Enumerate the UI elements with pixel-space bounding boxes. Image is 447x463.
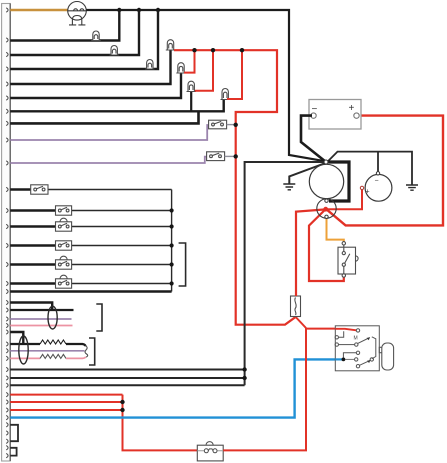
- lamp L1 (top of row-5 riser, feeds red bus): [166, 40, 175, 50]
- wire: blue ignition feed: [10, 359, 335, 417]
- flasher F1: [197, 442, 223, 461]
- grommet E1 (harness 1): [48, 306, 57, 329]
- breaker box C (with dome): [56, 218, 72, 231]
- ground symbol (body, right): [406, 185, 418, 190]
- fuse FU1: [291, 296, 301, 317]
- switch box B: [56, 206, 72, 215]
- wire: harness 1 purple lead: [10, 318, 71, 320]
- breaker box E (with dome): [56, 256, 72, 269]
- wire: red fuse to ignition Y: [296, 317, 306, 328]
- stub: S1 output to red bus: [227, 124, 236, 126]
- wire: alternator/body ground run: [327, 152, 412, 185]
- wire: red feed to ignition switch: [306, 329, 356, 331]
- junction dot blue/ignition: [342, 358, 346, 362]
- wire: row A to bus: [48, 189, 172, 191]
- wire: red drop to flasher: [123, 395, 198, 451]
- wire: harness 2 jog row: [10, 332, 23, 344]
- wire: row 7 with riser to lamp L3: [10, 100, 224, 112]
- bracket harness 1: [96, 304, 102, 331]
- wire: row C feed (thick): [10, 225, 55, 228]
- junction dot S1/red bus: [234, 123, 238, 127]
- breaker/switch box A: [31, 185, 48, 194]
- gauge G1 (instrument with internal filaments): [68, 2, 87, 25]
- wire: red feed bus from lamp L1 down right side to fuse area: [174, 50, 295, 325]
- wire: harness 2 pink lead with resistance wire: [10, 354, 85, 358]
- wire: black trunk to engine ground node: [245, 162, 325, 385]
- wire: battery negative cable: [301, 116, 325, 161]
- switch box D: [56, 241, 72, 250]
- junction dots on black trunk: [242, 367, 246, 371]
- connector pins (hook terminals on strip): [6, 8, 8, 458]
- wire: red branch lamp L4: [195, 50, 213, 91]
- wire: row E to bus: [72, 264, 172, 266]
- battery B1: [309, 100, 361, 130]
- wire: row 3 with riser to row 1: [10, 10, 139, 55]
- svg-text:+: +: [366, 189, 370, 196]
- regulator/cutout relay RL1: [338, 242, 358, 278]
- wire: harness 1 jog row: [10, 303, 52, 311]
- junction dots red drop: [120, 400, 124, 404]
- wire: harness 1 pink lead: [10, 325, 72, 327]
- wire: row D to bus: [72, 245, 172, 247]
- generator/dynamo M1: [309, 164, 343, 198]
- wire: row 2 with riser to row 1: [10, 10, 119, 41]
- wire: row 4 with riser to row 1: [10, 10, 158, 69]
- junction dots on row 1: [117, 8, 121, 12]
- jumper loop U2: [10, 448, 16, 456]
- harness 2 bundle end (wavy): [85, 346, 88, 358]
- breaker box F (with dome): [56, 275, 72, 288]
- wire: lamp L4 drop to row 7: [190, 92, 192, 112]
- wire: red row 2: [10, 401, 122, 403]
- node: engine ground terminal: [324, 160, 328, 164]
- wire: alternator ground branch: [377, 152, 379, 172]
- ignition switch SW: [335, 326, 379, 371]
- wire: orange instrument feed row 1: [10, 9, 68, 11]
- wire: red branch lamp L3: [227, 50, 242, 99]
- connector strip (left edge multi-pin connector): [2, 4, 11, 462]
- bracket harness 2: [89, 338, 95, 365]
- wire: thick generator loop: [326, 162, 349, 201]
- lamp L4: [187, 81, 196, 91]
- node: battery stud on solenoid: [323, 207, 328, 212]
- lamp Lb on row 3: [110, 46, 119, 56]
- ground symbol (engine, left): [283, 184, 295, 190]
- wire: harness 2 black lead with resistance wire: [10, 340, 85, 346]
- wire: red row 3: [10, 409, 122, 411]
- wire: purple row 9 to switch S1: [10, 125, 208, 140]
- wire: red row 1 (turn feed): [10, 394, 122, 396]
- switch S2 (box): [207, 152, 225, 161]
- wire: row 5 with riser to lamp L1: [10, 50, 170, 84]
- wire: red flasher to ignition riser: [223, 328, 306, 451]
- wire: row B feed (thick): [10, 209, 55, 212]
- lamp Lc on row 4: [145, 60, 154, 70]
- junction dots on return bus: [170, 208, 174, 212]
- wire: row C to bus: [72, 226, 172, 228]
- junction dot S2/red bus: [234, 154, 238, 158]
- key cylinder: [379, 343, 393, 370]
- wire: engine ground strap: [289, 163, 327, 185]
- wire: row B to bus: [72, 210, 172, 212]
- wire: red alternator output: [326, 190, 362, 210]
- grommet E2 (harness 2): [19, 336, 28, 364]
- wire: row F to bus: [72, 283, 172, 285]
- wire: red fuse feed from starter node: [296, 209, 326, 296]
- wire: red battery cable (+): [326, 116, 443, 226]
- wire: long dark row 1: [10, 369, 244, 371]
- wire: red branch lamp L2: [184, 50, 195, 72]
- lamp La on row 2: [91, 31, 100, 41]
- wire: harness 2 purple lead: [10, 350, 84, 352]
- wire: red starter to regulator loop: [309, 210, 344, 281]
- stub: S2 output to red bus: [225, 155, 236, 157]
- wire: row D feed (thick): [10, 244, 55, 247]
- wire: long dark row 3: [10, 384, 244, 386]
- wire: orange starter to regulator: [327, 219, 344, 242]
- wire: harness 1 black lead: [10, 309, 73, 311]
- wire: long dark row 2: [10, 377, 244, 379]
- lamp L2: [176, 63, 185, 73]
- svg-text:−: −: [375, 178, 379, 185]
- lamp L3: [221, 89, 230, 100]
- wire: row E feed (thick): [10, 263, 55, 266]
- wire: row G return (thick): [10, 290, 171, 293]
- wire: return bus vertical (rows A-F to row G): [171, 190, 173, 292]
- wire: row 8 riser joining row 7: [10, 111, 198, 123]
- wire: purple row 10 to switch S2: [10, 157, 206, 163]
- jumper loop U1: [10, 425, 18, 441]
- junction dots on red bus: [192, 48, 196, 52]
- wire: row F feed (thick): [10, 282, 55, 285]
- wire: row 6 with riser to lamp L2: [10, 73, 181, 98]
- svg-text:+: +: [349, 103, 355, 114]
- wire: black bus row 1 to engine ground node: [86, 10, 324, 161]
- switch S1 (box): [209, 120, 227, 129]
- alternator A1: [360, 172, 392, 202]
- svg-text:M: M: [354, 336, 358, 342]
- wire: row A feed (thick): [10, 188, 31, 191]
- bracket grouping rows D-F: [179, 243, 186, 286]
- starter solenoid SOL: [317, 199, 336, 219]
